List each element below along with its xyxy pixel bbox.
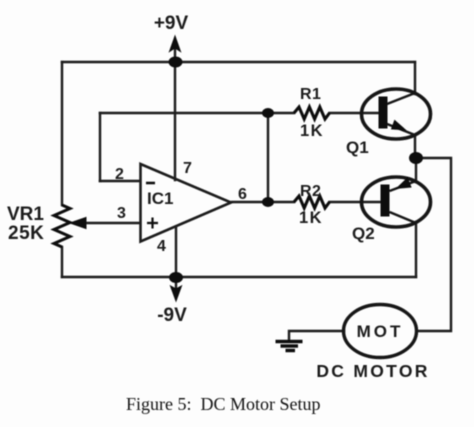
svg-text:-9V: -9V <box>157 305 187 326</box>
node pin6/R1 junction <box>262 108 274 118</box>
wire Q2 collector to bottom rail <box>415 222 417 277</box>
Q1 collector stroke <box>387 93 415 104</box>
Q1 emitter stroke <box>387 124 415 135</box>
wire R1 right lead / Q1 base <box>330 112 380 114</box>
svg-text:25K: 25K <box>8 223 44 244</box>
svg-text:MOT: MOT <box>357 322 404 341</box>
wire pin 2 input <box>100 180 139 182</box>
power -9V arrow <box>171 286 182 301</box>
svg-text:DC MOTOR: DC MOTOR <box>316 361 429 381</box>
wire bottom rail <box>62 276 416 278</box>
svg-text:7: 7 <box>183 160 192 177</box>
svg-text:1K: 1K <box>299 209 323 227</box>
wire +9V stub <box>174 44 176 62</box>
wire top rail <box>62 61 415 63</box>
svg-text:R1: R1 <box>300 86 321 103</box>
wire motor left to ground <box>289 331 344 339</box>
svg-text:1K: 1K <box>300 122 324 140</box>
wire pin 7 supply <box>174 62 176 180</box>
wire left rail upper <box>61 62 63 205</box>
resistor R2 <box>294 196 330 208</box>
wire R2 left lead <box>268 201 294 203</box>
wire Q1 emitter down <box>414 135 416 158</box>
resistor R1 <box>294 107 330 119</box>
wire Q2 emitter up <box>415 158 417 182</box>
Q2 collector stroke <box>390 212 417 223</box>
motor MOT body <box>344 305 417 358</box>
Q1 emitter arrowhead <box>392 121 405 130</box>
svg-text:6: 6 <box>238 186 247 203</box>
wire feedback vertical <box>99 113 101 181</box>
wire pin 3 input <box>80 222 139 224</box>
wire pin 4 to negative rail <box>175 227 177 277</box>
wire pin 6 output <box>232 201 268 203</box>
wire Q1 collector to top rail <box>414 62 416 94</box>
svg-text:IC1: IC1 <box>147 189 173 208</box>
op-amp minus sign <box>146 182 155 185</box>
node emitters junction <box>409 152 423 164</box>
svg-text:Q1: Q1 <box>346 138 369 157</box>
svg-text:Figure 5: DC Motor Setup: Figure 5: DC Motor Setup <box>126 394 321 414</box>
transistor Q2 body <box>362 177 431 227</box>
svg-text:Q2: Q2 <box>352 224 375 243</box>
node +9V junction <box>169 57 183 68</box>
Q2 emitter arrowhead <box>398 179 411 188</box>
svg-text:4: 4 <box>157 238 166 255</box>
op-amp plus sign <box>147 218 158 229</box>
Q2 emitter stroke <box>390 181 417 191</box>
potentiometer VR1 <box>54 205 70 247</box>
wire left rail lower <box>61 247 63 277</box>
svg-text:R2: R2 <box>300 183 321 200</box>
VR1 wiper arrow <box>70 218 86 229</box>
transistor Q1 body <box>362 89 431 139</box>
node -9V junction <box>169 272 183 283</box>
Q2 base bar <box>381 185 390 217</box>
svg-text:+9V: +9V <box>154 13 189 34</box>
wire -9V stub <box>175 277 177 290</box>
wire node column R1-R2 <box>267 113 269 202</box>
op-amp U1 triangle <box>141 164 232 242</box>
ground <box>276 342 303 351</box>
wire R1 left lead <box>268 112 294 114</box>
svg-text:VR1: VR1 <box>7 204 44 225</box>
power +9V arrow <box>170 36 181 52</box>
Q1 base bar <box>379 97 388 129</box>
wire feedback top <box>100 112 268 114</box>
wire emitter node to motor right <box>416 158 451 331</box>
svg-text:2: 2 <box>115 166 124 183</box>
svg-text:3: 3 <box>117 205 126 222</box>
wire R2 right lead / Q2 base <box>330 201 382 203</box>
node pin6/R2 junction <box>262 197 274 207</box>
